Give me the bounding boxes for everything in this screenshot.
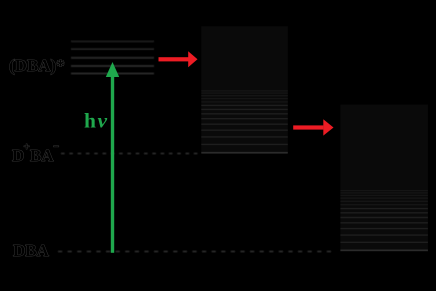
svg-text:BA: BA [30,146,54,165]
svg-text:D: D [12,146,24,165]
svg-text:h: h [84,109,96,133]
svg-text:+: + [24,141,30,153]
svg-text:(DBA)*: (DBA)* [9,56,65,75]
svg-text:−: − [53,141,59,153]
svg-text:DBA: DBA [13,241,50,260]
svg-text:ν: ν [98,109,108,133]
